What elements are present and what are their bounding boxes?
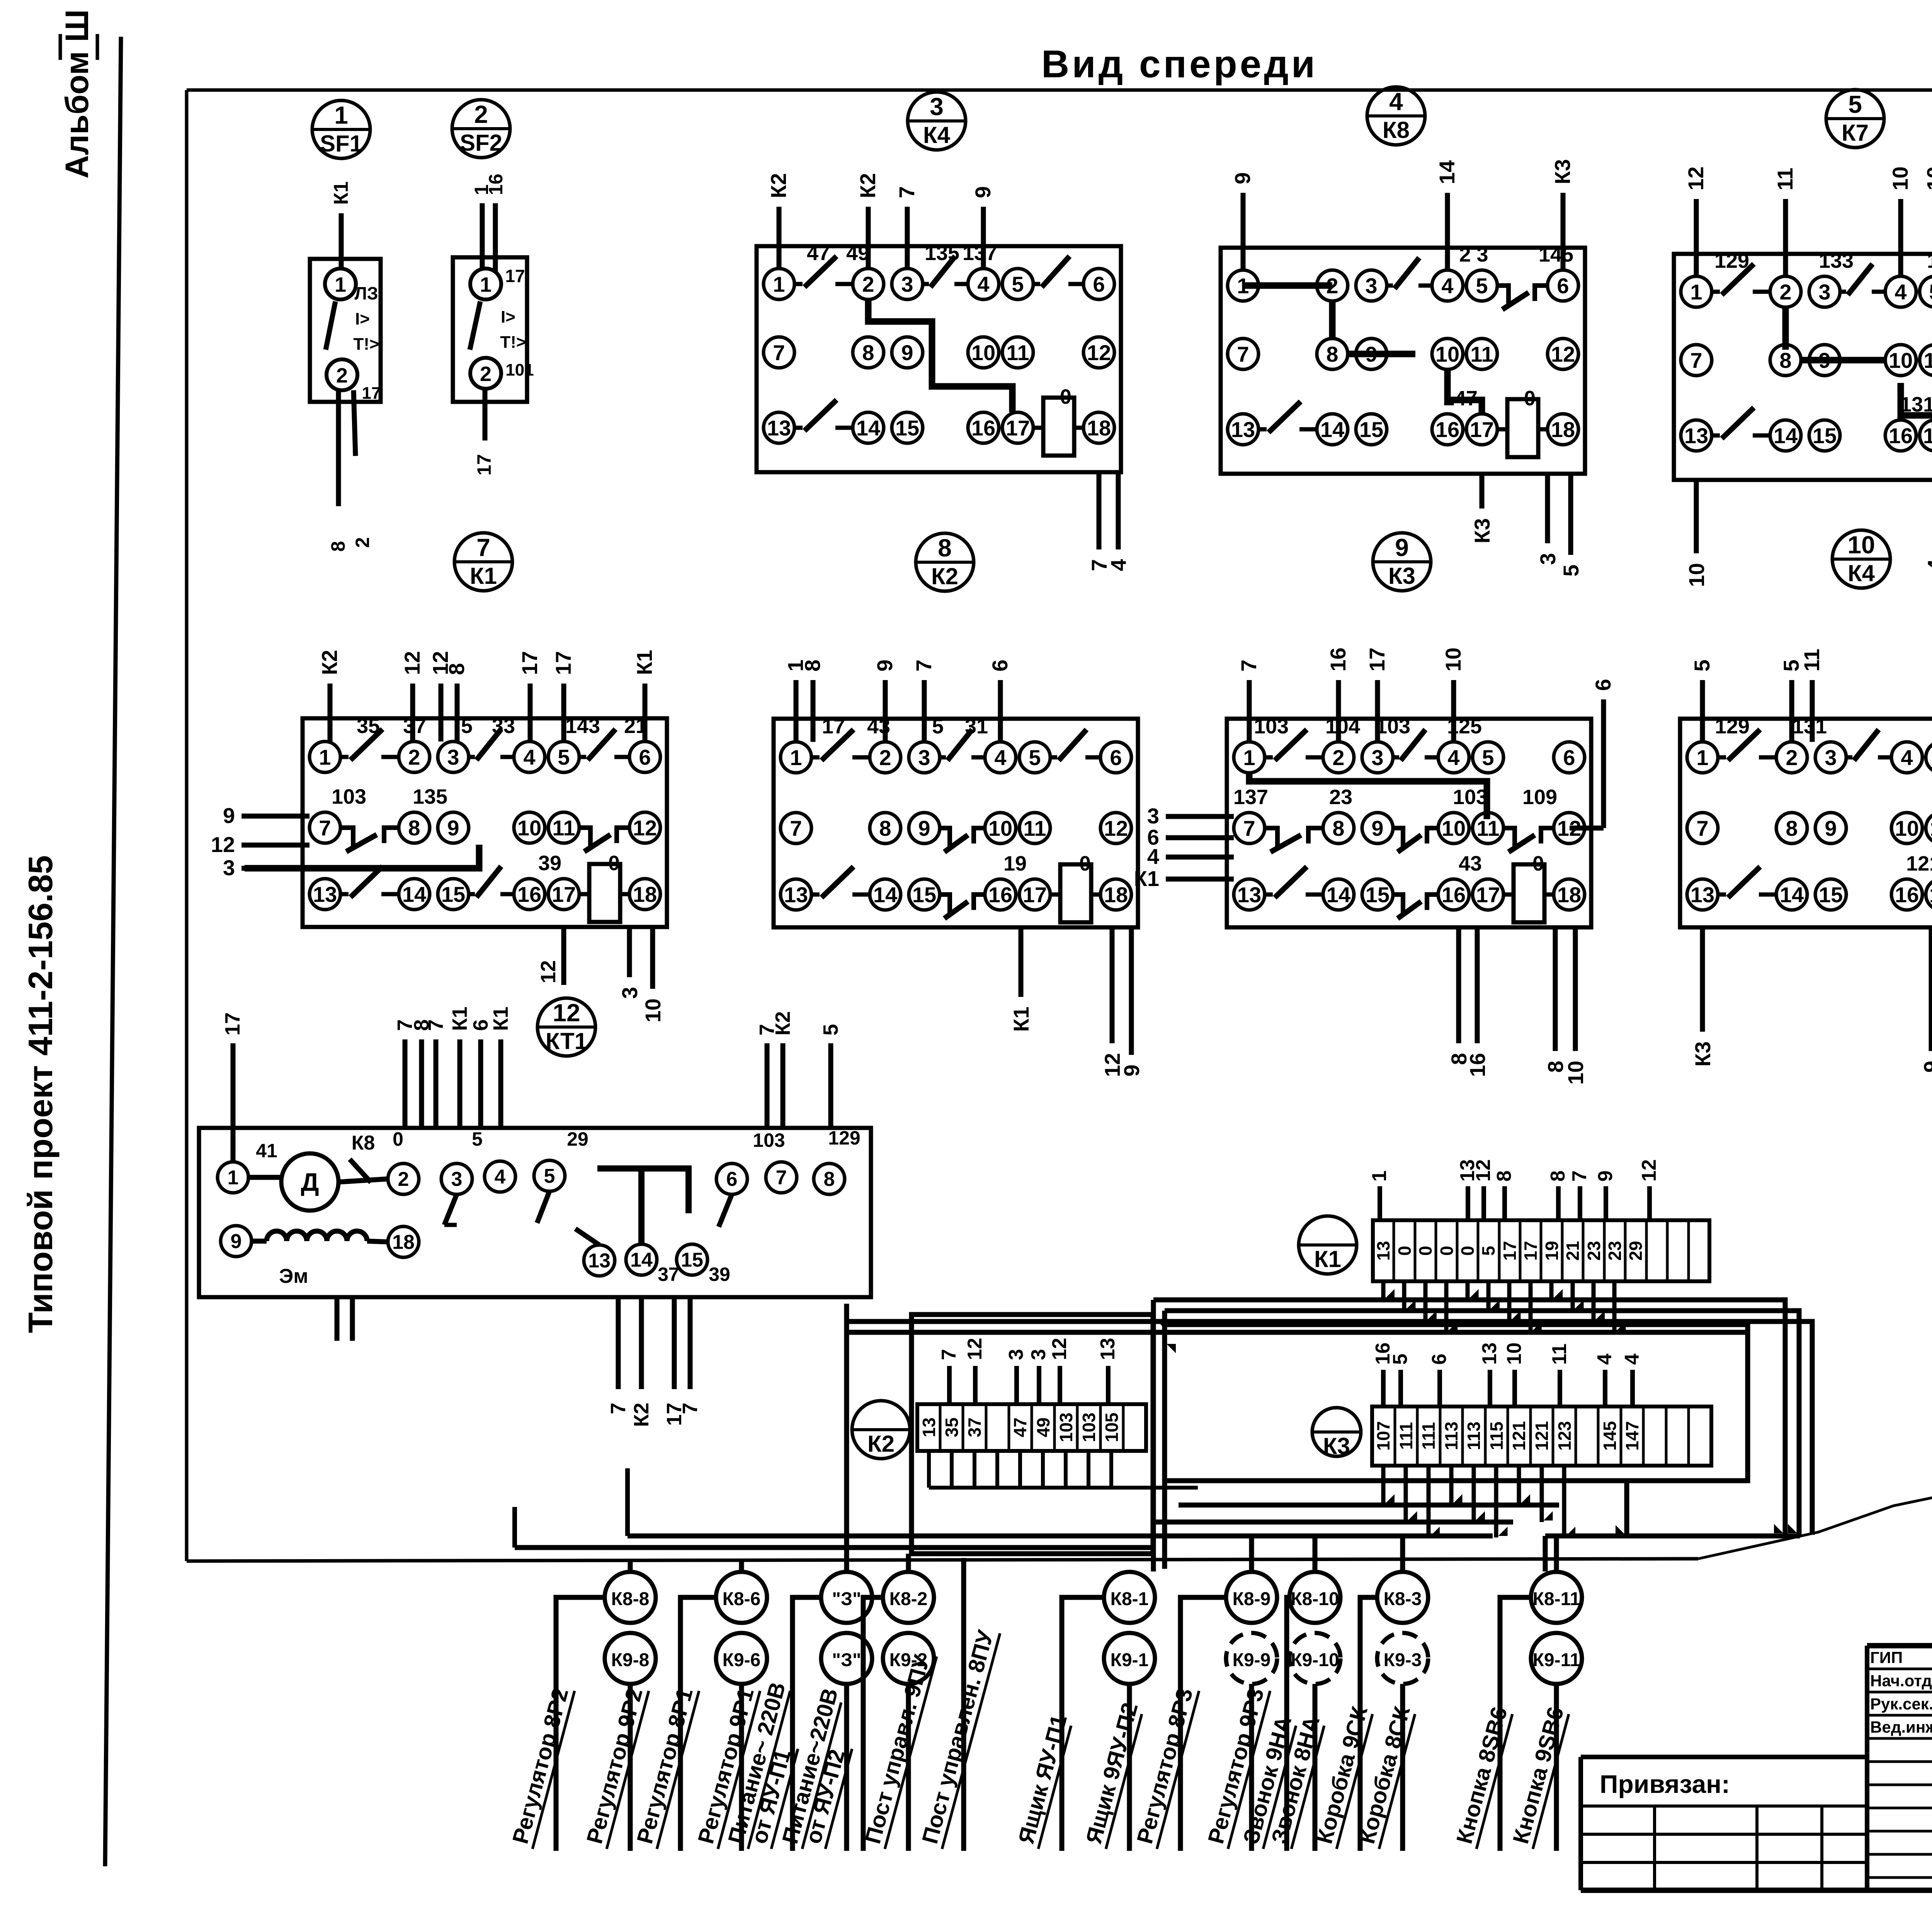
svg-text:15: 15 [895,416,919,440]
svg-text:105: 105 [1102,1413,1122,1442]
svg-text:4: 4 [1895,280,1906,304]
svg-text:4: 4 [977,272,989,296]
svg-text:3: 3 [1147,804,1159,828]
svg-text:17: 17 [1923,423,1932,448]
svg-text:К1: К1 [1134,866,1159,891]
svg-text:16: 16 [1895,883,1919,907]
svg-text:1: 1 [773,272,785,296]
svg-text:4: 4 [1389,88,1403,116]
svg-text:К2: К2 [630,1403,653,1427]
svg-text:35: 35 [942,1417,962,1437]
svg-text:5: 5 [1559,565,1583,577]
svg-text:4: 4 [1147,844,1159,869]
svg-text:17: 17 [505,266,525,286]
svg-text:К7: К7 [1842,120,1869,146]
svg-text:1: 1 [1696,745,1708,770]
svg-text:17: 17 [1500,1241,1520,1260]
svg-text:23: 23 [1584,1241,1604,1260]
svg-text:6: 6 [988,660,1012,672]
svg-text:12: 12 [1048,1338,1071,1360]
svg-text:12: 12 [633,816,657,840]
svg-text:SF2: SF2 [460,130,502,156]
svg-text:19: 19 [1003,852,1027,875]
svg-text:13: 13 [1373,1241,1393,1260]
svg-text:7: 7 [319,816,331,840]
svg-text:"З": "З" [832,1650,861,1670]
svg-text:15: 15 [912,883,936,907]
svg-text:17: 17 [1365,648,1389,672]
svg-text:12: 12 [1638,1159,1660,1182]
svg-text:1: 1 [1243,745,1255,770]
svg-text:К3: К3 [1323,1433,1350,1459]
svg-text:8: 8 [1493,1170,1515,1182]
svg-text:18: 18 [633,882,657,906]
svg-text:5: 5 [558,745,570,769]
svg-text:К1: К1 [632,650,656,675]
svg-text:121: 121 [1532,1421,1552,1451]
svg-text:К1: К1 [470,563,497,589]
svg-text:10: 10 [641,998,665,1022]
svg-text:2: 2 [1786,745,1798,770]
svg-text:К8-10: К8-10 [1291,1589,1339,1609]
svg-text:16: 16 [1326,648,1350,672]
svg-text:7: 7 [912,660,936,672]
svg-text:8: 8 [1786,816,1798,840]
svg-text:4: 4 [1441,274,1453,298]
svg-text:47: 47 [1010,1417,1030,1437]
svg-text:6: 6 [1591,679,1615,691]
svg-text:К1: К1 [330,181,352,205]
svg-text:0: 0 [608,852,620,875]
svg-text:14: 14 [1327,883,1350,907]
svg-text:103: 103 [1376,715,1410,738]
svg-text:2: 2 [1332,745,1344,770]
svg-text:5: 5 [544,1165,555,1187]
svg-text:9: 9 [1371,816,1383,840]
svg-text:5: 5 [1482,745,1494,770]
svg-text:43: 43 [1459,852,1482,875]
svg-text:123: 123 [1554,1421,1575,1451]
svg-text:103: 103 [332,785,366,808]
svg-text:121: 121 [1906,852,1932,875]
svg-text:15: 15 [1819,883,1843,907]
svg-text:3: 3 [1005,1349,1027,1360]
svg-text:0: 0 [1415,1246,1435,1256]
svg-text:12: 12 [964,1338,986,1360]
svg-text:К3: К3 [1388,563,1415,589]
svg-text:17: 17 [221,1012,244,1036]
svg-text:К8-3: К8-3 [1384,1589,1422,1609]
svg-text:103: 103 [753,1129,785,1151]
svg-text:103: 103 [1254,715,1289,738]
svg-text:2: 2 [408,745,420,769]
svg-text:7: 7 [476,534,490,561]
svg-text:10: 10 [988,816,1012,840]
svg-text:147: 147 [1622,1421,1642,1451]
svg-text:133: 133 [1819,249,1854,272]
svg-text:10: 10 [1922,167,1932,190]
svg-text:13: 13 [313,882,337,906]
svg-text:I>: I> [355,310,370,328]
svg-text:145: 145 [1539,243,1573,266]
svg-text:18: 18 [1104,883,1128,907]
svg-text:137: 137 [1233,786,1268,809]
svg-text:6: 6 [726,1168,738,1190]
svg-text:14: 14 [1435,160,1459,184]
svg-text:Нач.отд.: Нач.отд. [1870,1672,1932,1690]
svg-text:10: 10 [1847,531,1875,559]
svg-text:6: 6 [1563,745,1575,770]
svg-text:14: 14 [1780,883,1804,907]
svg-text:10: 10 [1435,342,1459,366]
svg-text:К9-10: К9-10 [1291,1650,1339,1670]
svg-text:9: 9 [1395,534,1409,561]
svg-text:Вед.инж: Вед.инж [1870,1718,1932,1736]
svg-text:13: 13 [1231,417,1255,442]
svg-text:2: 2 [474,100,488,128]
svg-text:8: 8 [408,816,420,840]
svg-text:5: 5 [1476,274,1488,298]
svg-text:7: 7 [1690,348,1702,372]
svg-text:К9-1: К9-1 [1111,1650,1149,1670]
svg-text:17: 17 [362,384,381,403]
svg-text:5: 5 [461,714,473,738]
svg-text:18: 18 [1557,883,1581,907]
svg-text:12: 12 [537,960,560,983]
svg-text:2 3: 2 3 [1459,243,1488,266]
svg-text:14: 14 [856,416,880,440]
svg-text:10: 10 [971,340,995,365]
svg-text:5: 5 [1929,280,1932,304]
svg-text:16: 16 [1435,417,1459,442]
svg-text:9: 9 [1929,660,1932,672]
svg-text:7: 7 [773,340,785,365]
svg-text:101: 101 [505,361,534,379]
svg-text:17: 17 [1470,417,1494,442]
svg-text:11: 11 [1548,1344,1571,1365]
svg-text:37: 37 [964,1417,985,1437]
svg-text:5: 5 [819,1024,842,1036]
svg-text:14: 14 [630,1249,653,1271]
svg-text:6: 6 [1557,274,1569,298]
svg-text:17: 17 [1520,1241,1541,1260]
svg-text:129: 129 [828,1127,860,1149]
svg-text:7: 7 [607,1403,630,1414]
svg-text:3: 3 [930,93,944,121]
svg-text:5: 5 [1848,90,1862,118]
svg-text:31: 31 [965,715,988,738]
svg-text:23: 23 [1605,1241,1625,1260]
svg-text:8: 8 [1779,348,1791,372]
svg-text:12: 12 [1472,1159,1495,1182]
svg-text:4: 4 [994,745,1006,770]
svg-text:4: 4 [1447,745,1459,770]
svg-text:107: 107 [1373,1421,1393,1451]
svg-text:К4: К4 [1848,560,1875,586]
svg-text:К8-8: К8-8 [611,1589,650,1609]
svg-text:T!>: T!> [353,335,379,354]
svg-text:7: 7 [938,1349,960,1360]
svg-text:9: 9 [1825,816,1837,840]
svg-text:КТ1: КТ1 [546,1028,587,1054]
svg-text:К3: К3 [1690,1041,1715,1066]
svg-text:10: 10 [1441,648,1465,672]
svg-text:К2: К2 [931,563,958,589]
svg-text:137: 137 [963,241,997,265]
svg-text:11: 11 [1476,816,1499,840]
svg-text:104: 104 [1325,715,1360,738]
svg-text:1: 1 [790,745,802,770]
svg-text:0: 0 [1532,852,1544,875]
svg-text:17: 17 [1006,416,1030,440]
svg-text:11: 11 [1006,340,1029,365]
svg-text:13: 13 [588,1250,611,1272]
svg-text:10: 10 [1895,816,1919,840]
svg-text:К8-11: К8-11 [1533,1589,1580,1609]
svg-text:1: 1 [334,101,348,129]
svg-text:К9-3: К9-3 [1384,1650,1422,1670]
svg-text:115: 115 [1486,1422,1507,1450]
svg-text:7: 7 [1236,660,1261,672]
svg-text:143: 143 [565,714,600,738]
svg-text:ГИП: ГИП [1870,1648,1903,1667]
svg-text:4: 4 [1901,745,1913,770]
svg-text:103: 103 [1453,786,1488,809]
svg-text:К2: К2 [855,173,880,198]
svg-text:1: 1 [1368,1170,1391,1182]
svg-text:113: 113 [1464,1422,1484,1450]
svg-text:14: 14 [402,882,426,906]
svg-text:0: 0 [1524,387,1536,410]
svg-text:16: 16 [988,883,1012,907]
svg-text:10: 10 [1503,1342,1526,1365]
svg-text:4: 4 [1594,1354,1616,1365]
svg-text:18: 18 [392,1231,415,1253]
svg-text:103: 103 [1056,1413,1076,1442]
svg-text:135: 135 [413,785,447,808]
svg-text:13: 13 [1684,423,1708,448]
svg-text:9: 9 [901,340,913,365]
svg-text:К1: К1 [1314,1246,1341,1272]
svg-text:17: 17 [1023,883,1047,907]
svg-text:15: 15 [1366,883,1389,907]
svg-text:5: 5 [1012,272,1024,296]
svg-text:7: 7 [1568,1170,1591,1182]
svg-text:К8-2: К8-2 [889,1589,928,1609]
svg-text:4: 4 [1923,559,1932,571]
svg-text:9: 9 [223,803,235,828]
svg-text:1: 1 [319,745,331,769]
svg-text:К9-8: К9-8 [611,1650,650,1670]
svg-text:5: 5 [1690,660,1714,672]
svg-text:4: 4 [1621,1354,1643,1365]
svg-text:131: 131 [1792,715,1827,738]
svg-text:9: 9 [1594,1170,1617,1182]
svg-text:10: 10 [1684,563,1709,587]
svg-text:7: 7 [790,816,802,840]
svg-text:9: 9 [1919,1061,1932,1073]
svg-text:6: 6 [1110,745,1122,770]
svg-text:3: 3 [1536,553,1560,565]
svg-text:33: 33 [492,714,515,738]
svg-text:К1: К1 [489,1007,512,1031]
svg-text:К8-9: К8-9 [1233,1589,1271,1609]
svg-text:2: 2 [879,745,891,770]
svg-text:К8: К8 [1383,117,1410,143]
svg-text:5: 5 [472,1128,483,1150]
svg-text:8: 8 [1547,1170,1569,1182]
svg-text:Рук.сек.: Рук.сек. [1870,1695,1932,1713]
svg-text:9: 9 [918,816,930,840]
svg-text:Типовой проект 411-2-156.85: Типовой проект 411-2-156.85 [21,855,60,1333]
svg-text:12: 12 [1087,340,1111,365]
svg-text:12: 12 [211,832,235,857]
svg-text:15: 15 [1359,417,1383,442]
svg-text:121: 121 [1509,1421,1529,1451]
svg-text:10: 10 [1889,348,1913,372]
svg-text:11: 11 [1470,342,1493,366]
svg-text:4: 4 [1106,559,1131,571]
svg-text:Д: Д [301,1168,319,1196]
svg-text:0: 0 [1079,852,1091,875]
svg-text:16: 16 [1465,1053,1490,1077]
svg-text:8: 8 [1332,816,1344,840]
svg-text:I>: I> [501,308,515,327]
svg-text:0: 0 [393,1128,403,1150]
svg-text:13: 13 [1097,1338,1119,1360]
svg-text:2: 2 [352,537,373,548]
svg-text:7: 7 [776,1167,787,1189]
svg-text:12: 12 [400,651,424,675]
svg-text:23: 23 [1329,786,1352,809]
svg-text:К3: К3 [1550,159,1575,184]
svg-text:К2: К2 [771,1011,794,1036]
svg-text:7: 7 [1696,816,1708,840]
svg-text:К2: К2 [766,173,791,198]
svg-text:ЛЗ: ЛЗ [354,283,378,303]
svg-text:5: 5 [932,715,944,738]
svg-text:39: 39 [538,852,561,875]
svg-text:"З": "З" [832,1589,861,1609]
svg-text:10: 10 [1442,816,1466,840]
svg-text:9: 9 [971,186,995,198]
svg-text:8: 8 [444,663,469,675]
svg-text:К8-6: К8-6 [723,1589,761,1609]
svg-text:135: 135 [925,241,959,265]
svg-text:145: 145 [1600,1421,1620,1451]
svg-text:7: 7 [679,1403,702,1414]
svg-text:0: 0 [1458,1246,1478,1256]
svg-text:129: 129 [1715,715,1750,738]
svg-text:11: 11 [1799,649,1824,672]
svg-text:113: 113 [1441,1422,1461,1450]
svg-text:2: 2 [480,362,492,386]
svg-text:6: 6 [1428,1354,1451,1365]
svg-text:0: 0 [1060,385,1071,408]
svg-text:5: 5 [1029,745,1041,770]
svg-text:К1: К1 [1009,1007,1033,1032]
svg-text:К2: К2 [317,650,342,675]
svg-text:111: 111 [1396,1422,1416,1450]
svg-text:103: 103 [1079,1413,1099,1442]
svg-text:Привязан:: Привязан: [1600,1770,1730,1798]
svg-text:111: 111 [1418,1422,1439,1450]
svg-text:3: 3 [223,855,235,880]
svg-text:3: 3 [918,745,930,770]
svg-text:16: 16 [1889,423,1913,448]
svg-text:17: 17 [551,651,575,675]
svg-text:16: 16 [1442,883,1466,907]
svg-text:8: 8 [879,816,891,840]
svg-text:8: 8 [327,541,349,552]
svg-text:35: 35 [357,714,380,738]
svg-text:16: 16 [517,882,541,906]
svg-text:15: 15 [681,1249,703,1271]
svg-text:29: 29 [1626,1241,1646,1260]
svg-text:10: 10 [1563,1061,1588,1085]
svg-text:29: 29 [567,1128,588,1150]
svg-text:К9-6: К9-6 [723,1650,761,1670]
svg-text:12: 12 [1684,167,1708,190]
svg-text:К3: К3 [1470,518,1494,543]
svg-text:7: 7 [895,186,919,198]
svg-text:13: 13 [784,883,808,907]
svg-text:17: 17 [1476,883,1500,907]
svg-text:К9-11: К9-11 [1533,1650,1580,1670]
svg-text:3: 3 [1818,280,1830,304]
svg-text:8: 8 [824,1168,835,1190]
svg-text:9: 9 [1119,1065,1144,1077]
svg-text:6: 6 [1093,272,1105,296]
svg-text:13: 13 [767,416,791,440]
svg-text:17: 17 [1929,883,1932,907]
svg-text:17: 17 [822,715,845,738]
svg-text:14: 14 [873,883,897,907]
svg-text:18: 18 [1551,417,1575,442]
svg-text:18: 18 [1087,416,1111,440]
svg-text:37: 37 [658,1264,679,1285]
svg-text:14: 14 [1320,417,1344,442]
svg-text:15: 15 [1813,423,1837,448]
svg-text:1: 1 [480,273,492,296]
svg-text:3: 3 [1027,1349,1050,1360]
svg-text:9: 9 [447,816,459,840]
svg-text:7: 7 [1243,816,1255,840]
svg-text:8: 8 [938,534,952,562]
svg-text:3: 3 [1365,274,1377,298]
svg-text:9: 9 [1230,172,1255,184]
svg-text:39: 39 [709,1264,730,1285]
svg-text:8: 8 [862,340,874,365]
svg-text:11: 11 [1023,816,1046,840]
svg-text:17: 17 [473,454,495,476]
svg-text:12: 12 [1551,342,1575,366]
svg-text:К1: К1 [448,1007,471,1031]
svg-text:3: 3 [617,987,642,999]
svg-text:13: 13 [1478,1342,1501,1365]
svg-text:15: 15 [441,882,465,906]
svg-text:11: 11 [1923,348,1932,372]
svg-text:11: 11 [552,816,575,840]
svg-text:3: 3 [447,745,459,769]
svg-text:13: 13 [1690,883,1714,907]
svg-text:2: 2 [398,1168,409,1190]
svg-text:16: 16 [971,416,995,440]
svg-text:1: 1 [335,273,346,296]
svg-text:7: 7 [424,1019,447,1031]
svg-text:47: 47 [807,241,830,265]
svg-text:12: 12 [553,999,580,1027]
